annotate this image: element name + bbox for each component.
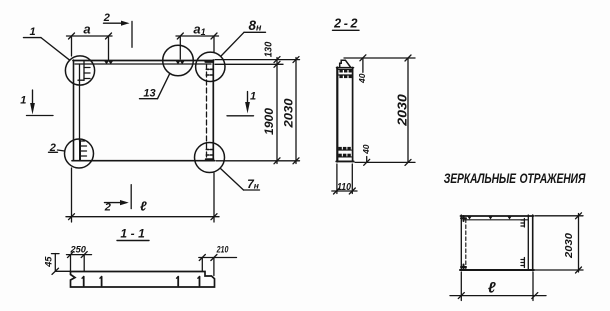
- svg-text:a: a: [83, 22, 90, 37]
- section 2-2 bottom extension line: [355, 161, 415, 163]
- svg-text:210: 210: [216, 245, 229, 255]
- plan left edge inner line: [79, 64, 81, 141]
- section 2-2 top anchor zigzags: [339, 69, 352, 75]
- dimension a: [67, 33, 113, 60]
- dimension 45: [52, 254, 71, 275]
- mirror plan weld ticks on top edge: [468, 217, 512, 220]
- dimension 40 bottom: [364, 157, 370, 166]
- mirror plan detail top-right: [521, 219, 524, 228]
- weld marks on top edge near dimension a: [104, 61, 113, 64]
- mirror plan top edge: [461, 215, 534, 217]
- right dimension line 2030: [293, 57, 299, 164]
- svg-text:2030: 2030: [284, 98, 296, 129]
- weld marks on top edge in circle 13: [176, 61, 185, 64]
- svg-text:45: 45: [44, 256, 54, 268]
- plan right edge dashed line: [206, 64, 208, 160]
- section 1-1 slab outline: [71, 272, 215, 288]
- embedded detail bottom-right: [206, 150, 214, 160]
- section marker 1 left: [27, 90, 54, 116]
- mirror dimension 2030: [535, 213, 583, 273]
- section marker 2 bottom: [105, 185, 132, 209]
- svg-text:13: 13: [143, 88, 155, 100]
- mirror plan left edge: [460, 215, 462, 271]
- label 7n leader: [220, 168, 259, 190]
- plan top edge inner line: [75, 63, 211, 65]
- right dimension line 130/1900: [215, 57, 283, 164]
- svg-text:2: 2: [49, 142, 56, 154]
- mirror dimension l: [450, 272, 546, 301]
- mirror plan bottom edge: [460, 269, 534, 271]
- detail circle top-left: [65, 56, 94, 85]
- embedded detail top-right: [206, 62, 214, 75]
- svg-text:ЗЕРКАЛЬНЫЕОТРАЖЕНИЯ: ЗЕРКАЛЬНЫЕОТРАЖЕНИЯ: [444, 170, 586, 186]
- section 2-2 bottom anchor zigzags: [338, 150, 351, 157]
- label 13 leader: [140, 73, 170, 98]
- dimension 40 top: [360, 55, 366, 73]
- mirror plan corner mark bottom-left: [461, 265, 466, 271]
- label 8n leader: [221, 32, 266, 56]
- dimension l bottom of plan: [66, 168, 219, 222]
- svg-text:ℓ: ℓ: [140, 199, 147, 214]
- svg-text:7н: 7н: [247, 177, 259, 191]
- svg-text:1: 1: [250, 91, 256, 103]
- svg-text:40: 40: [357, 73, 367, 84]
- svg-text:2030: 2030: [395, 94, 409, 127]
- label 1 leader: [24, 38, 70, 61]
- dimension 210: [199, 255, 237, 276]
- section marker 1 right: [227, 92, 254, 116]
- plan left edge outer line: [73, 60, 75, 161]
- dimension 2030 of section 2-2: [405, 55, 411, 165]
- plan bottom edge: [72, 160, 215, 162]
- svg-text:1: 1: [29, 26, 35, 38]
- embedded detail top-left: [78, 61, 90, 80]
- svg-text:8н: 8н: [249, 18, 263, 33]
- section 2-2 top extension line: [344, 57, 415, 59]
- svg-text:1: 1: [20, 95, 26, 107]
- svg-text:130: 130: [262, 42, 274, 58]
- mirror plan detail bottom-right: [521, 258, 524, 268]
- svg-text:a1: a1: [193, 22, 205, 38]
- svg-text:ℓ: ℓ: [488, 280, 496, 297]
- mirror plan right edge: [527, 215, 529, 270]
- right bottom extension line: [216, 160, 300, 162]
- detail circle top-right: [196, 52, 225, 81]
- mirror plan corner mark top-left: [461, 216, 466, 221]
- section 2-2 top cap: [340, 60, 351, 67]
- svg-text:110: 110: [337, 181, 351, 193]
- svg-text:1900: 1900: [264, 107, 276, 135]
- section 2-2 slab body: [336, 68, 353, 162]
- label 2 leader: [49, 150, 65, 152]
- plan right edge solid line: [212, 60, 214, 161]
- section 1-1 anchor ticks: [82, 277, 200, 286]
- title 1-1 underline: [117, 240, 149, 242]
- right top extension line: [215, 59, 300, 61]
- svg-text:2: 2: [103, 12, 110, 24]
- svg-text:2-2: 2-2: [333, 17, 360, 31]
- plan top edge outer line: [73, 60, 214, 62]
- svg-text:1-1: 1-1: [120, 226, 148, 240]
- title 2-2 underline: [333, 29, 360, 31]
- svg-text:2: 2: [104, 202, 111, 214]
- detail circle bottom-left: [65, 139, 94, 168]
- dimension a1: [176, 33, 219, 59]
- detail circle bottom-right: [195, 143, 225, 173]
- svg-text:250: 250: [70, 245, 87, 255]
- dimension 110: [332, 164, 357, 194]
- svg-text:2030: 2030: [563, 233, 575, 259]
- detail circle top-middle: [163, 45, 194, 76]
- embedded detail bottom-left: [80, 141, 87, 161]
- dimension 250: [67, 252, 92, 272]
- section marker 2 top: [104, 21, 133, 48]
- svg-text:40: 40: [361, 144, 371, 155]
